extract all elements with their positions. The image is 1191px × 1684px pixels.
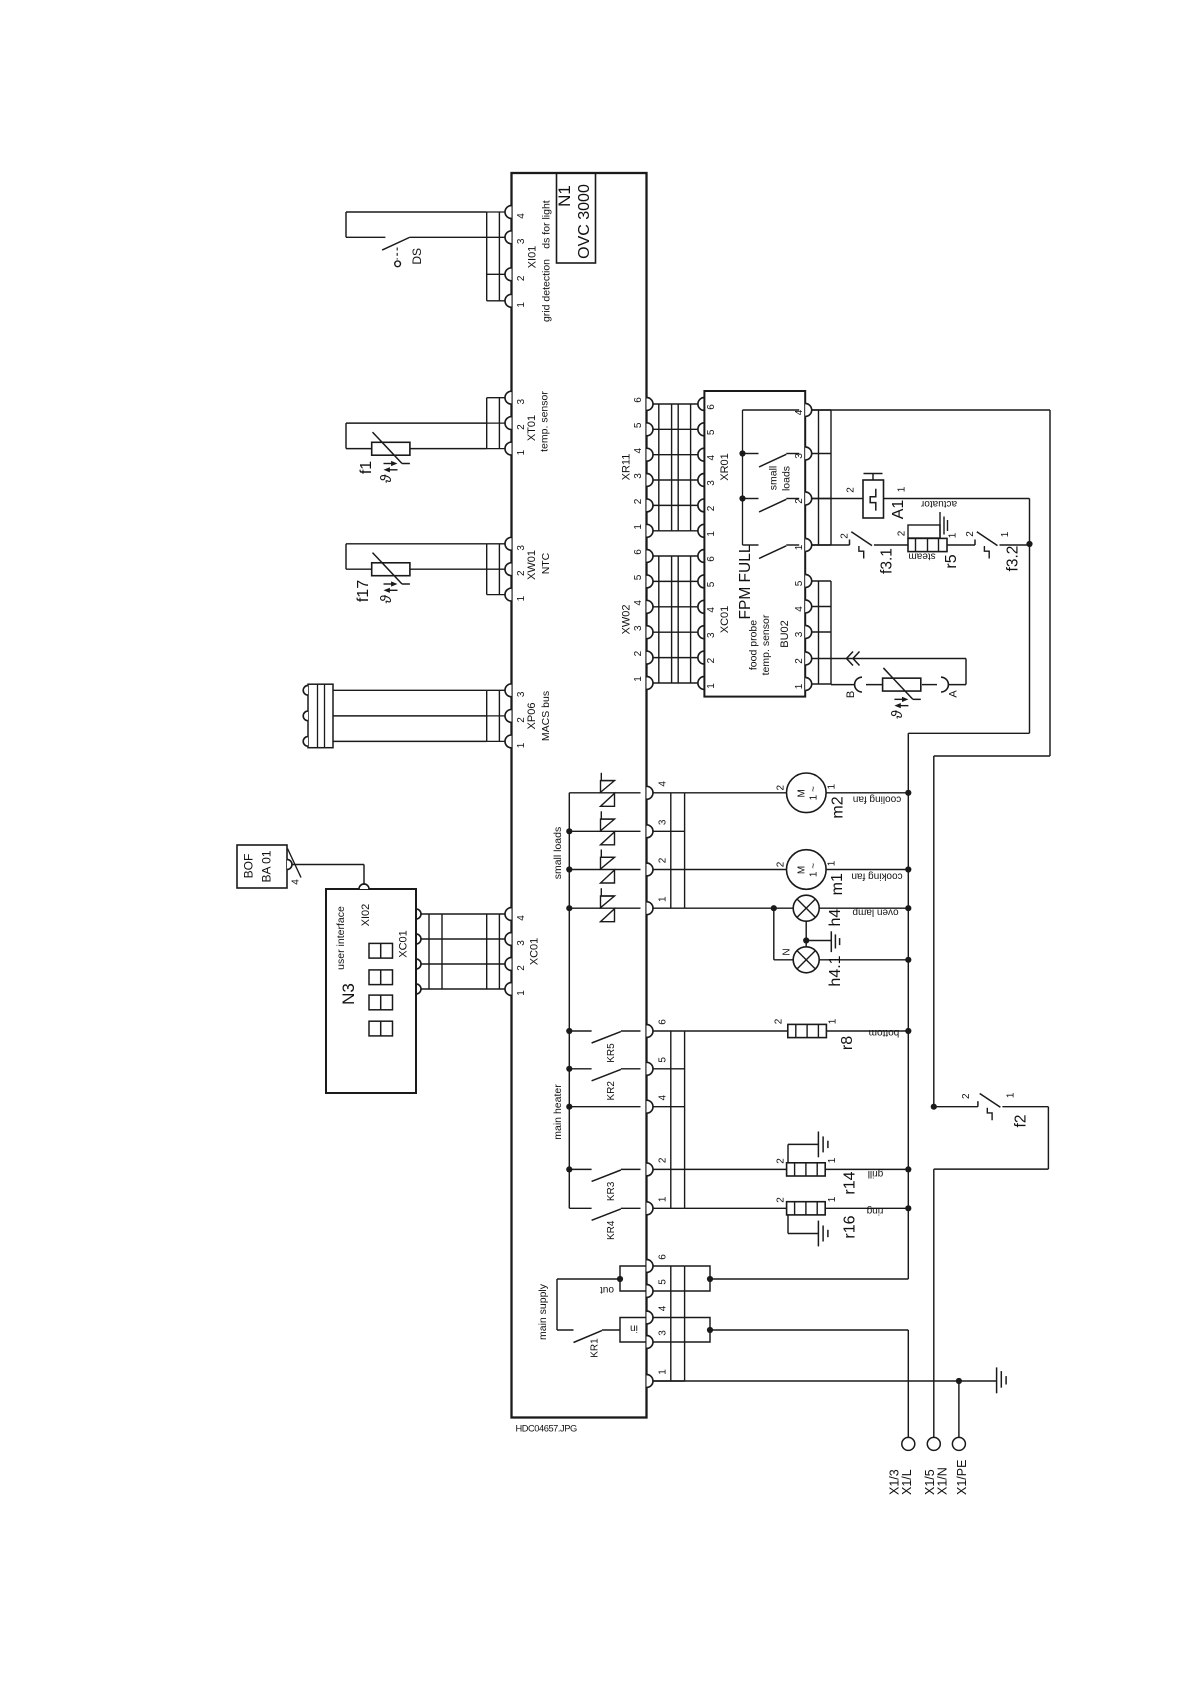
svg-text:3: 3 bbox=[794, 631, 805, 637]
svg-text:loads: loads bbox=[780, 466, 792, 491]
svg-text:3: 3 bbox=[658, 819, 669, 825]
svg-text:2: 2 bbox=[776, 784, 787, 790]
svg-text:2: 2 bbox=[706, 505, 717, 511]
svg-text:4: 4 bbox=[658, 781, 669, 787]
svg-text:cooling fan: cooling fan bbox=[853, 794, 901, 805]
svg-text:XR11: XR11 bbox=[620, 454, 632, 481]
svg-text:X1/PE: X1/PE bbox=[955, 1460, 969, 1495]
svg-text:2: 2 bbox=[965, 531, 976, 537]
svg-text:KR1: KR1 bbox=[590, 1338, 601, 1358]
svg-text:4: 4 bbox=[706, 607, 717, 613]
svg-text:small loads: small loads bbox=[552, 827, 564, 880]
svg-text:2: 2 bbox=[774, 1018, 785, 1024]
svg-text:HDC04657.JPG: HDC04657.JPG bbox=[516, 1424, 577, 1434]
svg-text:3: 3 bbox=[706, 632, 717, 638]
svg-text:1: 1 bbox=[706, 531, 717, 537]
svg-text:1 ~: 1 ~ bbox=[809, 786, 820, 800]
svg-text:3: 3 bbox=[516, 398, 527, 404]
svg-text:cooking fan: cooking fan bbox=[851, 870, 902, 881]
svg-text:oven lamp: oven lamp bbox=[852, 906, 899, 917]
svg-text:2: 2 bbox=[794, 658, 805, 664]
svg-text:6: 6 bbox=[658, 1019, 669, 1025]
svg-text:4: 4 bbox=[516, 915, 527, 921]
svg-text:2: 2 bbox=[658, 857, 669, 863]
svg-text:KR4: KR4 bbox=[606, 1220, 617, 1240]
svg-text:r5: r5 bbox=[943, 554, 960, 568]
svg-text:XW02: XW02 bbox=[620, 605, 632, 635]
svg-text:4: 4 bbox=[658, 1305, 669, 1311]
svg-text:5: 5 bbox=[658, 1279, 669, 1285]
svg-text:2: 2 bbox=[897, 530, 908, 536]
svg-text:1: 1 bbox=[827, 860, 838, 866]
svg-text:4: 4 bbox=[633, 600, 644, 606]
svg-text:XC01: XC01 bbox=[719, 606, 731, 634]
svg-text:1: 1 bbox=[827, 1196, 838, 1202]
svg-text:X1/N: X1/N bbox=[936, 1467, 950, 1495]
svg-text:temp. sensor: temp. sensor bbox=[538, 391, 550, 452]
svg-text:1: 1 bbox=[827, 783, 838, 789]
svg-text:1: 1 bbox=[827, 1157, 838, 1163]
svg-text:OVC 3000: OVC 3000 bbox=[576, 184, 593, 259]
svg-text:food probe: food probe bbox=[747, 620, 759, 670]
svg-text:1 ~: 1 ~ bbox=[809, 863, 820, 877]
svg-text:XW01: XW01 bbox=[526, 550, 538, 580]
svg-text:BU02: BU02 bbox=[779, 620, 791, 648]
svg-text:MACS bus: MACS bus bbox=[540, 691, 552, 741]
svg-text:2: 2 bbox=[706, 657, 717, 663]
svg-text:2: 2 bbox=[840, 533, 851, 539]
svg-text:f2: f2 bbox=[1013, 1115, 1030, 1128]
svg-text:2: 2 bbox=[961, 1093, 972, 1099]
svg-text:B: B bbox=[845, 691, 857, 698]
svg-text:r16: r16 bbox=[841, 1215, 858, 1238]
svg-text:3: 3 bbox=[658, 1330, 669, 1336]
svg-text:h4.1: h4.1 bbox=[827, 955, 844, 986]
svg-text:2: 2 bbox=[633, 498, 644, 504]
svg-text:out: out bbox=[600, 1284, 614, 1295]
svg-text:ϑ: ϑ bbox=[378, 594, 395, 603]
svg-text:XC01: XC01 bbox=[528, 938, 540, 966]
svg-text:BA 01: BA 01 bbox=[259, 850, 273, 882]
svg-text:2: 2 bbox=[794, 498, 805, 504]
svg-text:5: 5 bbox=[794, 580, 805, 586]
svg-text:XR01: XR01 bbox=[719, 453, 731, 481]
svg-text:r8: r8 bbox=[839, 1036, 856, 1050]
svg-text:h4: h4 bbox=[827, 909, 844, 927]
svg-text:grill: grill bbox=[868, 1168, 884, 1179]
svg-text:f3.1: f3.1 bbox=[879, 548, 896, 574]
svg-text:4: 4 bbox=[706, 454, 717, 460]
svg-text:ϑ: ϑ bbox=[889, 710, 906, 719]
svg-text:KR5: KR5 bbox=[606, 1043, 617, 1063]
svg-text:ϑ: ϑ bbox=[378, 474, 395, 483]
svg-text:XC01: XC01 bbox=[397, 930, 409, 958]
svg-text:2: 2 bbox=[776, 1197, 787, 1203]
svg-text:1: 1 bbox=[1000, 531, 1011, 537]
svg-text:ring: ring bbox=[867, 1205, 884, 1216]
svg-text:KR2: KR2 bbox=[606, 1081, 617, 1101]
svg-text:KR3: KR3 bbox=[606, 1181, 617, 1201]
svg-text:6: 6 bbox=[633, 397, 644, 403]
svg-text:f1: f1 bbox=[358, 461, 375, 474]
svg-text:2: 2 bbox=[776, 861, 787, 867]
svg-text:1: 1 bbox=[1005, 1092, 1016, 1098]
svg-text:f17: f17 bbox=[355, 580, 372, 602]
svg-text:1: 1 bbox=[633, 524, 644, 530]
svg-text:3: 3 bbox=[516, 545, 527, 551]
svg-text:N: N bbox=[782, 948, 793, 955]
svg-text:4: 4 bbox=[794, 409, 805, 415]
svg-text:grid detection: grid detection bbox=[541, 259, 553, 322]
svg-text:1: 1 bbox=[516, 449, 527, 455]
svg-text:5: 5 bbox=[706, 581, 717, 587]
svg-text:5: 5 bbox=[658, 1057, 669, 1063]
svg-text:in: in bbox=[630, 1322, 638, 1333]
svg-text:5: 5 bbox=[633, 574, 644, 580]
svg-text:f3.2: f3.2 bbox=[1005, 546, 1022, 572]
svg-text:r14: r14 bbox=[841, 1171, 858, 1194]
svg-text:main supply: main supply bbox=[537, 1283, 549, 1340]
svg-text:3: 3 bbox=[633, 473, 644, 479]
svg-text:1: 1 bbox=[633, 676, 644, 682]
svg-text:small: small bbox=[767, 466, 779, 491]
svg-text:main heater: main heater bbox=[552, 1084, 564, 1140]
svg-text:A: A bbox=[947, 690, 959, 698]
svg-text:5: 5 bbox=[633, 422, 644, 428]
svg-text:XT01: XT01 bbox=[526, 415, 538, 441]
svg-text:3: 3 bbox=[794, 453, 805, 459]
svg-text:4: 4 bbox=[658, 1094, 669, 1100]
svg-text:6: 6 bbox=[633, 549, 644, 555]
svg-text:1: 1 bbox=[658, 1369, 669, 1375]
svg-text:XI01: XI01 bbox=[526, 246, 538, 269]
svg-text:1: 1 bbox=[897, 486, 908, 492]
svg-text:1: 1 bbox=[794, 544, 805, 550]
svg-text:1: 1 bbox=[516, 595, 527, 601]
svg-text:A1: A1 bbox=[890, 500, 907, 520]
svg-text:3: 3 bbox=[633, 625, 644, 631]
svg-text:BOF: BOF bbox=[241, 854, 255, 879]
svg-text:m1: m1 bbox=[829, 873, 846, 895]
svg-text:4: 4 bbox=[794, 606, 805, 612]
svg-text:X1/L: X1/L bbox=[900, 1469, 914, 1495]
svg-text:1: 1 bbox=[706, 683, 717, 689]
svg-text:m2: m2 bbox=[829, 796, 846, 818]
svg-text:actuator: actuator bbox=[920, 498, 957, 509]
svg-text:N3: N3 bbox=[339, 983, 358, 1005]
svg-text:NTC: NTC bbox=[540, 552, 552, 574]
svg-text:2: 2 bbox=[516, 965, 527, 971]
svg-text:4: 4 bbox=[516, 213, 527, 219]
svg-text:1: 1 bbox=[948, 532, 959, 538]
svg-text:4: 4 bbox=[291, 879, 302, 885]
svg-text:1: 1 bbox=[658, 1196, 669, 1202]
svg-text:5: 5 bbox=[706, 429, 717, 435]
svg-text:3: 3 bbox=[516, 691, 527, 697]
svg-text:6: 6 bbox=[706, 556, 717, 562]
svg-text:bottom: bottom bbox=[869, 1027, 900, 1038]
svg-text:2: 2 bbox=[658, 1157, 669, 1163]
svg-text:2: 2 bbox=[846, 487, 857, 493]
svg-text:1: 1 bbox=[516, 990, 527, 996]
svg-text:1: 1 bbox=[658, 896, 669, 902]
svg-text:3: 3 bbox=[516, 940, 527, 946]
svg-text:N1: N1 bbox=[555, 185, 574, 207]
svg-text:M: M bbox=[797, 789, 808, 797]
svg-text:1: 1 bbox=[828, 1018, 839, 1024]
svg-text:2: 2 bbox=[776, 1158, 787, 1164]
svg-text:DS: DS bbox=[410, 248, 424, 265]
svg-text:steam: steam bbox=[908, 550, 935, 561]
svg-text:FPM FULL: FPM FULL bbox=[737, 544, 754, 619]
svg-text:1: 1 bbox=[516, 742, 527, 748]
svg-text:4: 4 bbox=[633, 447, 644, 453]
svg-text:6: 6 bbox=[658, 1254, 669, 1260]
svg-text:M: M bbox=[797, 866, 808, 874]
svg-text:6: 6 bbox=[706, 404, 717, 410]
svg-text:XI02: XI02 bbox=[360, 904, 372, 927]
svg-text:1: 1 bbox=[794, 683, 805, 689]
svg-text:3: 3 bbox=[706, 480, 717, 486]
svg-text:2: 2 bbox=[633, 650, 644, 656]
svg-text:XP06: XP06 bbox=[526, 703, 538, 730]
svg-text:temp. sensor: temp. sensor bbox=[760, 614, 772, 675]
svg-text:2: 2 bbox=[516, 275, 527, 281]
svg-text:user interface: user interface bbox=[335, 906, 347, 970]
svg-text:1: 1 bbox=[516, 302, 527, 308]
svg-text:ds for light: ds for light bbox=[541, 200, 553, 249]
svg-text:3: 3 bbox=[516, 238, 527, 244]
